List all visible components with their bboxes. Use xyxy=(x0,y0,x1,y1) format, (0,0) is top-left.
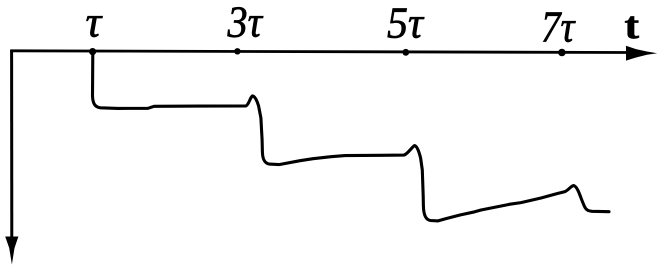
arrowhead vertical axis xyxy=(5,237,18,265)
tick dot tau xyxy=(89,48,96,55)
tick dot 3tau xyxy=(234,48,240,54)
vertical axis xyxy=(10,50,13,240)
horizontal time axis xyxy=(10,51,629,53)
arrowhead t axis xyxy=(626,46,657,61)
waveform sampled decay curve xyxy=(93,52,610,221)
svg-text:t: t xyxy=(625,5,640,47)
svg-text:τ: τ xyxy=(86,0,104,46)
svg-text:7τ: 7τ xyxy=(541,2,576,51)
svg-text:3τ: 3τ xyxy=(227,0,264,47)
tick dot 7tau xyxy=(558,49,566,57)
svg-text:5τ: 5τ xyxy=(387,0,425,48)
tick dot 5tau xyxy=(402,49,409,56)
